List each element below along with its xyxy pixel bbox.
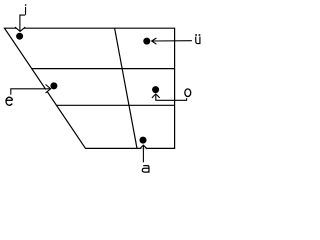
mid horizontal line 2 bbox=[57, 104, 175, 106]
vowel dot i bbox=[16, 33, 23, 40]
label i bbox=[25, 4, 26, 15]
arrow for e bbox=[46, 85, 51, 93]
label e bbox=[6, 97, 13, 105]
arrow for a bbox=[140, 145, 147, 149]
vowel dot a bbox=[140, 137, 147, 144]
vowel dot e bbox=[50, 82, 57, 89]
slanted back-vowel divider line bbox=[115, 28, 137, 148]
label a bbox=[142, 166, 149, 173]
mid horizontal line 1 bbox=[32, 68, 175, 70]
vowel trapezoid outline bbox=[5, 28, 175, 148]
label ü bbox=[195, 34, 200, 44]
label o bbox=[185, 89, 191, 97]
arrow for ü bbox=[152, 38, 157, 44]
vowel dot o bbox=[152, 86, 159, 93]
arrow for i bbox=[15, 27, 25, 31]
arrow for o bbox=[152, 94, 160, 98]
vowel dot ü bbox=[143, 38, 150, 45]
